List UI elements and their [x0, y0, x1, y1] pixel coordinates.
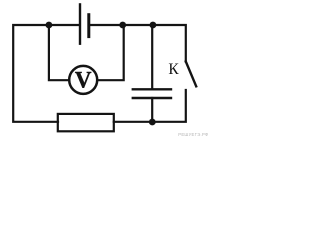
svg-text:К: К — [168, 61, 179, 78]
svg-text:РЕШУЕГЭ.РФ: РЕШУЕГЭ.РФ — [178, 132, 208, 137]
svg-text:V: V — [75, 68, 92, 93]
